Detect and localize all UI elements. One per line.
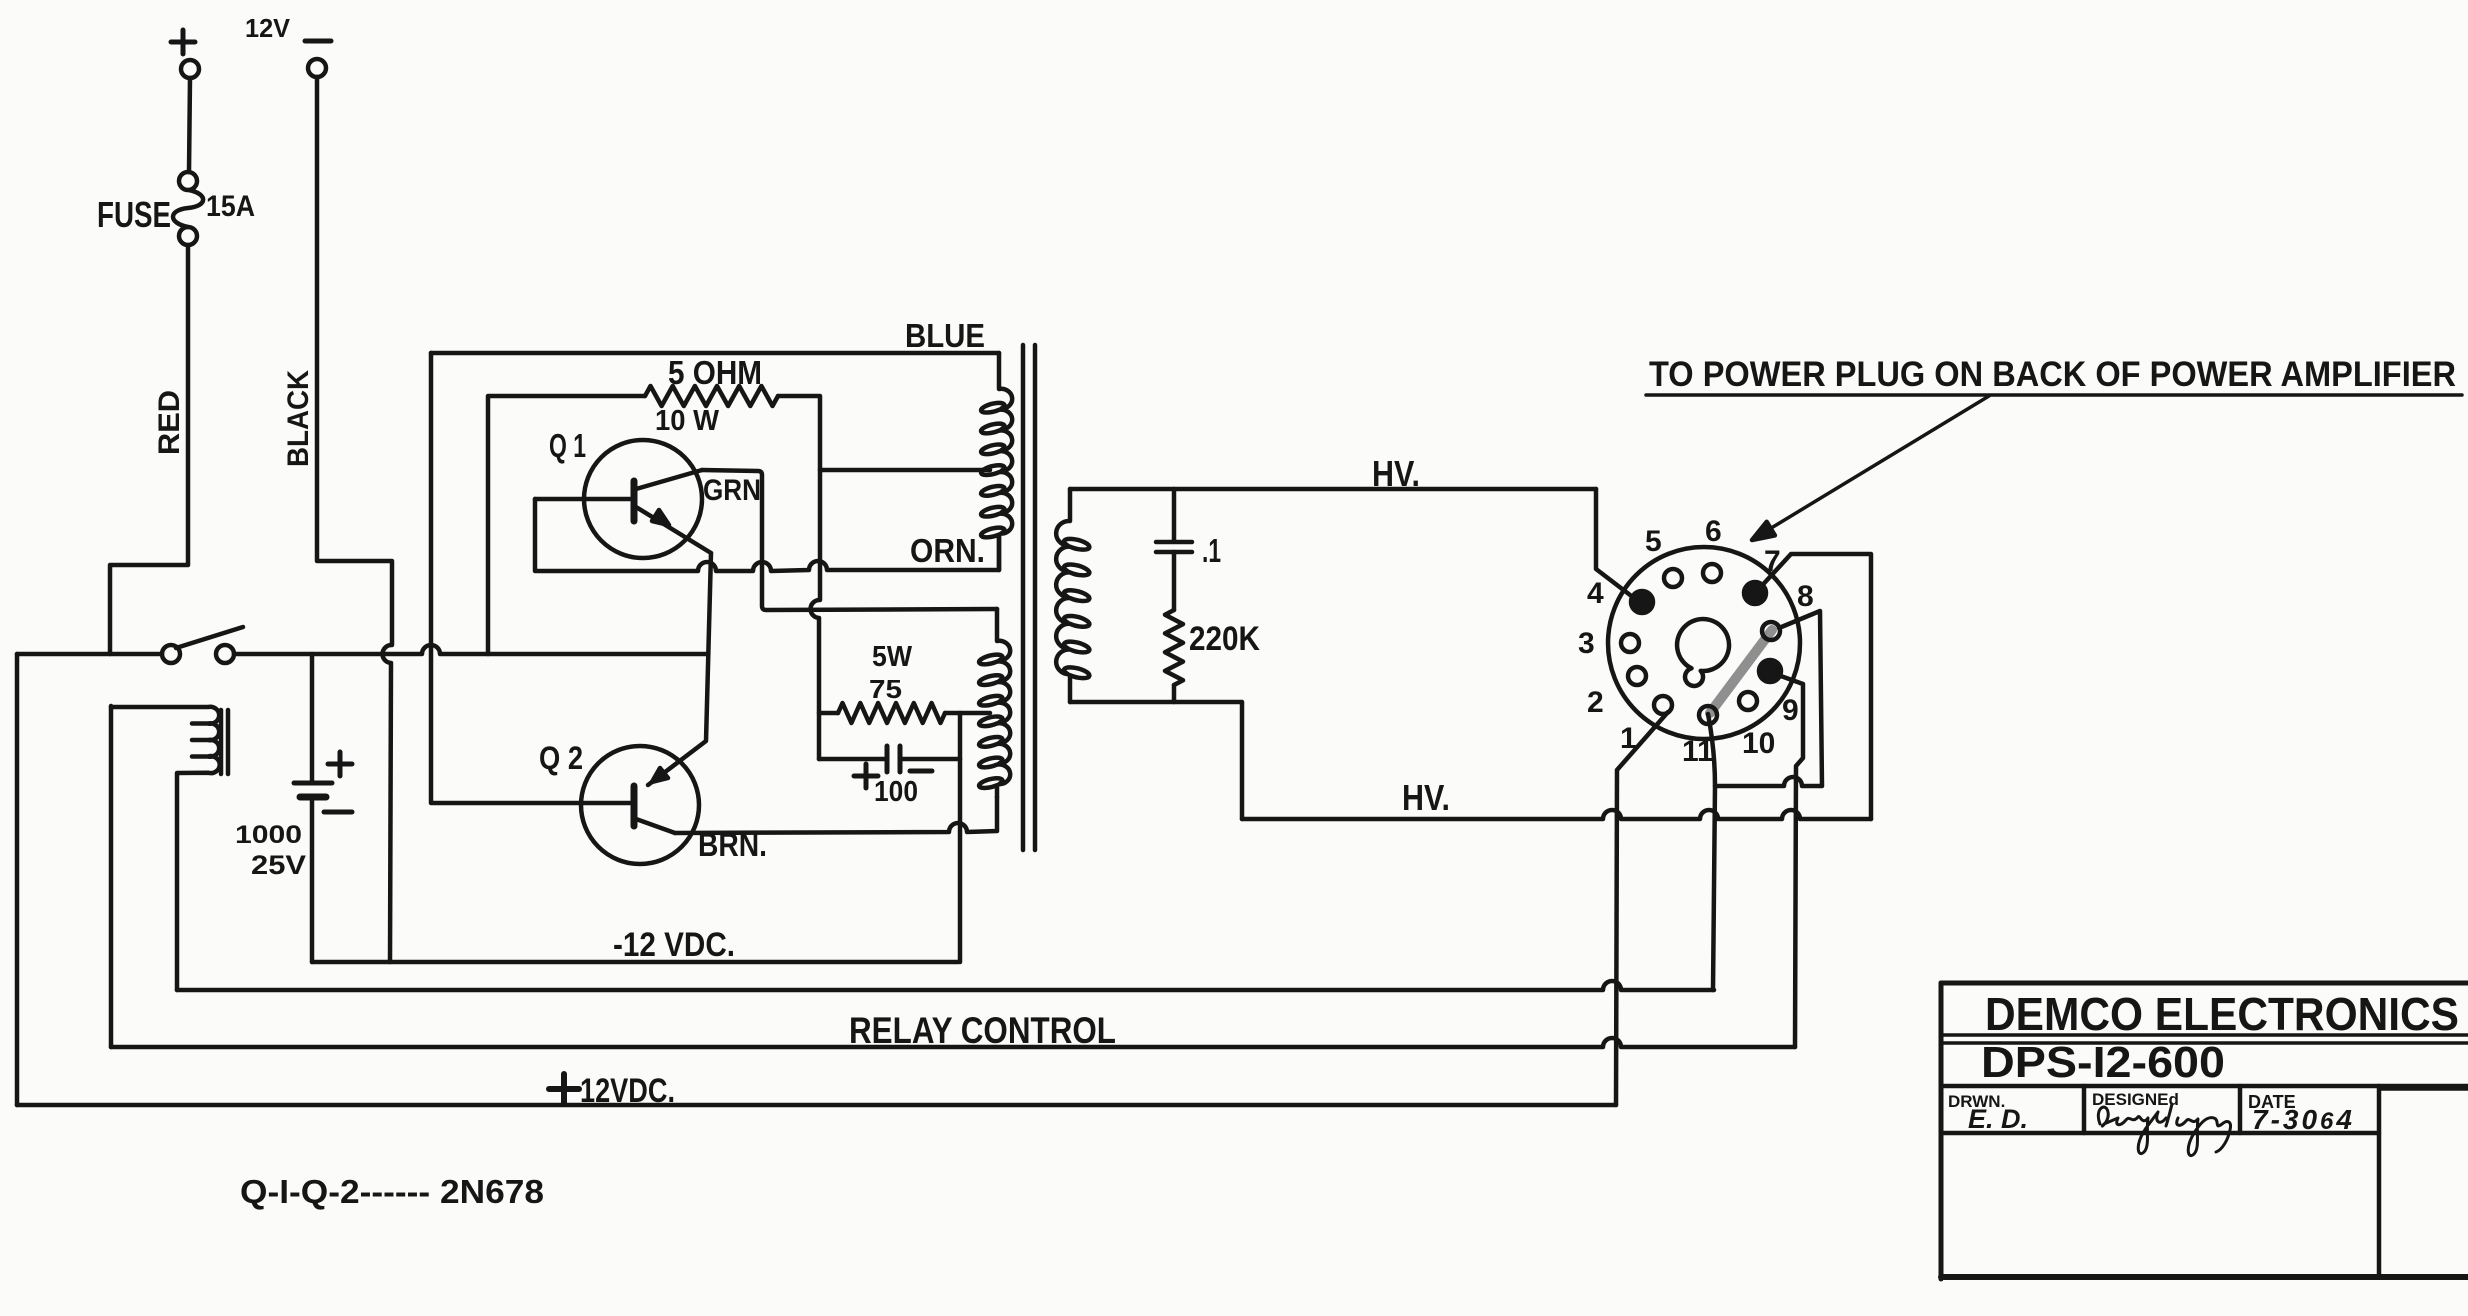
svg-text:DPS-I2-600: DPS-I2-600: [1981, 1038, 2225, 1087]
resistor R1 5 OHM 10 W: [645, 386, 778, 406]
svg-text:7: 7: [1764, 545, 1781, 578]
svg-text:11: 11: [1682, 735, 1714, 768]
svg-text:.1: .1: [1202, 532, 1221, 569]
node: +12V battery terminal (+): [171, 30, 199, 78]
svg-text:-12 VDC.: -12 VDC.: [613, 926, 735, 964]
wire: BLUE top line from Q-box: [431, 351, 999, 356]
wire BRN: Q2 collector to lower winding bottom (hops over -12V drop): [675, 797, 997, 833]
capacitor C2 100uF: [819, 746, 960, 788]
title block frame: [1941, 983, 2468, 1279]
wire: pin 1 drop to +12VDC rail: [1616, 712, 1668, 1105]
wire: coil top down to RELAY CONTROL rail: [109, 706, 114, 1047]
svg-text:FUSE: FUSE: [97, 194, 171, 235]
wire: RELAY CONTROL rail (hops over pin1 drop): [111, 1038, 1795, 1047]
svg-text:12VDC.: 12VDC.: [580, 1072, 675, 1110]
label: +12VDC.: [549, 1074, 579, 1104]
svg-text:E. D.: E. D.: [1968, 1104, 2028, 1134]
svg-text:9: 9: [1782, 694, 1799, 727]
relay socket outline: [1608, 547, 1800, 739]
svg-text:8: 8: [1797, 580, 1814, 613]
transformer T1 primary upper winding: [981, 353, 1012, 570]
svg-text:Q-I-Q-2------ 2N678: Q-I-Q-2------ 2N678: [240, 1173, 544, 1210]
wire: HV bottom line (hops over pin1, pin11, pin9 drops): [1242, 810, 1871, 819]
capacitor C1 1000uF 25V (battery style plates): [294, 654, 352, 962]
socket keyway: [1677, 619, 1729, 686]
resistor R3 220K: [1165, 610, 1183, 685]
svg-text:12V: 12V: [245, 13, 291, 43]
transistor Q2: [581, 746, 699, 864]
svg-text:HV.: HV.: [1372, 453, 1420, 494]
wire: left outer vertical to +12VDC rail: [15, 654, 20, 1105]
shorting link pin11-pin8 (pencil): [1710, 630, 1772, 713]
svg-text:100: 100: [874, 776, 918, 808]
socket pin 6: [1703, 564, 1721, 582]
wire: right riser to pin 7: [1757, 554, 1871, 819]
wire: HV top line: [1070, 487, 1596, 492]
wire: tap node down to -12VDC rail: [958, 713, 963, 962]
svg-text:5W: 5W: [872, 641, 913, 673]
svg-text:2: 2: [1587, 686, 1604, 719]
wire: coil bottom down to pin-11 rail: [175, 774, 180, 990]
socket pin 8: [1762, 622, 1780, 640]
svg-text:10: 10: [1742, 727, 1775, 760]
svg-text:BLACK: BLACK: [282, 370, 315, 467]
svg-text:75: 75: [869, 674, 902, 704]
transistor Q1: [535, 440, 711, 558]
underline: [1646, 393, 2462, 397]
wire: pin 11 drop to coil rail: [1708, 714, 1715, 990]
socket pin 4: [1631, 591, 1653, 613]
transformer T1 secondary winding: [1056, 489, 1089, 702]
switch S1: [17, 627, 243, 663]
svg-text:10 W: 10 W: [655, 405, 720, 437]
wire RED: fuse down and jog to switch: [110, 245, 188, 654]
arrow to socket: [1752, 396, 1989, 540]
svg-text:ORN.: ORN.: [910, 532, 985, 569]
wire: switched +12 up to R1: [488, 396, 645, 654]
svg-text:15A: 15A: [206, 190, 255, 223]
signature: Emil (designer): [2098, 1104, 2230, 1156]
wire: coil-to-pin11 rail (hops over pin1 drop): [177, 981, 1714, 990]
svg-text:GRN: GRN: [703, 474, 761, 507]
wire: + terminal to fuse: [189, 78, 190, 172]
svg-text:5 OHM: 5 OHM: [668, 354, 762, 391]
svg-text:6: 6: [1705, 515, 1722, 548]
wire: Q-box left vertical to Q2 base: [431, 353, 630, 803]
wire ORN: upper winding bottom to Q1 base (3 hops): [535, 499, 999, 571]
svg-text:BLUE: BLUE: [905, 317, 985, 354]
socket pin 3: [1621, 634, 1639, 652]
svg-text:1000: 1000: [235, 821, 302, 849]
wire: secondary bottom line: [1070, 702, 1242, 819]
svg-text:HV.: HV.: [1402, 777, 1450, 818]
socket pin 5: [1664, 569, 1682, 587]
socket pin 9: [1759, 660, 1781, 682]
svg-text:3: 3: [1578, 627, 1595, 660]
svg-text:DEMCO ELECTRONICS: DEMCO ELECTRONICS: [1985, 988, 2459, 1040]
wire: HV top to pin 4: [1596, 489, 1634, 598]
socket pin 1: [1654, 696, 1672, 714]
svg-text:220K: 220K: [1189, 620, 1260, 658]
wire: pin 8 to pin 11 riser (hops over pin 9 drop): [1715, 611, 1822, 786]
relay coil K1: [111, 707, 228, 774]
wire: common emitter line Q1-Q2: [648, 553, 711, 785]
svg-text:25V: 25V: [251, 850, 306, 880]
wire: -12VDC rail: [312, 960, 958, 965]
svg-text:BRN.: BRN.: [698, 826, 767, 863]
svg-text:Q 1: Q 1: [549, 427, 586, 464]
socket pin 11: [1699, 706, 1717, 724]
wire BLACK: - terminal down to -12VDC rail (jogs over switch wire): [317, 77, 392, 962]
svg-text:7-3064: 7-3064: [2252, 1104, 2355, 1135]
svg-text:RED: RED: [153, 390, 186, 455]
wire: +12VDC rail: [17, 1103, 1616, 1108]
resistor R2 75 ohm 5W: [819, 711, 838, 716]
node: -12V battery terminal (-): [305, 41, 331, 77]
wire GRN: Q1 collector to lower winding top: [702, 470, 997, 610]
wire: tap to upper winding tap: [820, 468, 990, 473]
svg-text:Q 2: Q 2: [539, 740, 583, 776]
svg-text:4: 4: [1587, 577, 1604, 610]
capacitor C3 .1: [1156, 489, 1192, 610]
svg-text:5: 5: [1645, 525, 1662, 558]
socket pin 2: [1628, 667, 1646, 685]
wire: pin 9 drop to RELAY CONTROL rail: [1778, 675, 1803, 1047]
socket pin 7: [1744, 582, 1766, 604]
wire: R1 to feedback tap node, down to C2 (jogs over GRN line): [778, 396, 820, 759]
transformer T1 primary lower winding: [979, 609, 1010, 797]
fuse F1 15A: [173, 172, 203, 245]
socket pin 10: [1739, 692, 1757, 710]
wire: switch to emitter rail (hops over Q-box wire): [234, 645, 706, 654]
svg-text:RELAY CONTROL: RELAY CONTROL: [849, 1010, 1116, 1051]
transformer T1 core: [1023, 345, 1035, 850]
svg-text:TO POWER PLUG ON BACK OF POWER: TO POWER PLUG ON BACK OF POWER AMPLIFIER: [1649, 355, 2456, 394]
